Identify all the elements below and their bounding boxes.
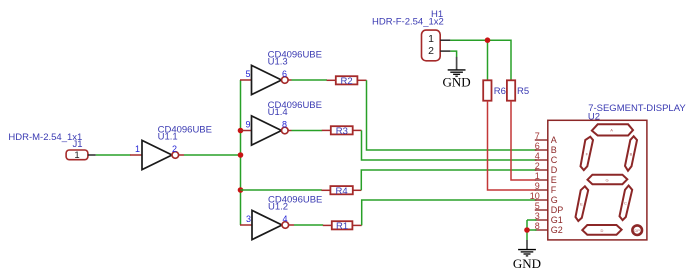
svg-text:U1.4: U1.4 [268,107,288,118]
svg-text:B: B [630,152,633,157]
wire R6 to display pin F [488,101,536,190]
svg-text:10: 10 [530,191,540,201]
svg-text:G: G [551,195,558,205]
segment E [576,186,589,221]
op-amp U1.1 (inverter CD4096UBE) [130,125,212,170]
svg-text:7: 7 [535,131,540,141]
segment B [625,136,637,171]
header H1 [422,30,451,61]
segment DP [632,225,642,235]
segment C [620,186,633,221]
svg-text:1: 1 [135,144,140,154]
svg-text:J1: J1 [73,139,83,150]
segment A [592,124,633,135]
op-amp U1.3 (inverter CD4096UBE) [240,50,322,95]
segment G [588,175,628,185]
node junction at G2/ground [524,227,530,233]
svg-text:C: C [551,155,558,165]
svg-text:GND: GND [443,75,471,90]
ground symbol (bottom) [513,240,541,271]
svg-text:1: 1 [428,33,434,45]
header H1 label HDR-F-2.54_1x2 [372,9,444,28]
svg-text:F: F [551,185,557,195]
header J1 label HDR-M-2.54_1x1 [8,132,82,150]
node junction at R4 branch [238,187,244,193]
svg-text:5: 5 [245,69,250,79]
svg-text:R1: R1 [336,221,348,232]
svg-text:GND: GND [513,256,541,271]
svg-text:7-SEGMENT-DISPLAY: 7-SEGMENT-DISPLAY [588,103,686,114]
wire G1 G2 to ground [527,220,537,240]
svg-text:4: 4 [535,151,540,161]
svg-text:R3: R3 [336,126,348,137]
resistor R5 [507,80,529,100]
svg-text:A: A [551,135,557,145]
node junction at U1.4 input [238,128,244,134]
svg-text:5: 5 [535,201,540,211]
wire U1.3 output to R2 [292,79,328,81]
wire U1.2 output to R1 [294,224,323,226]
resistor R6 [483,80,506,100]
svg-text:2: 2 [535,161,540,171]
wire J1 to U1.1 input [96,154,131,156]
ground symbol (top) [443,57,471,90]
svg-text:R2: R2 [341,76,353,87]
resistor R4 [321,186,361,197]
svg-text:DP: DP [634,228,640,233]
svg-text:R4: R4 [336,186,348,197]
7-segment display U2 body [548,120,647,240]
wire H1 pin2 to ground [450,51,456,57]
svg-text:R5: R5 [517,86,529,97]
pin 1 E [535,171,557,185]
wire R3 to display pin C [362,130,537,160]
segment D [582,225,621,235]
7-segment display U2 labels [588,103,686,122]
pin 7 A [535,131,557,145]
svg-text:D: D [551,165,558,175]
svg-text:D: D [601,228,604,233]
svg-text:U1.1: U1.1 [158,132,178,143]
svg-text:8: 8 [282,119,287,129]
wire junction to R4 [241,189,322,191]
svg-text:U1.2: U1.2 [268,202,288,213]
svg-text:HDR-M-2.54_1x1: HDR-M-2.54_1x1 [8,132,82,143]
pin 10 G [530,191,558,205]
wire R2 to display pin B [367,80,537,150]
svg-text:2: 2 [172,144,177,154]
pin 4 C [535,151,558,165]
svg-text:E: E [551,175,557,185]
pin 2 D [535,161,558,175]
svg-text:HDR-F-2.54_1x2: HDR-F-2.54_1x2 [372,17,444,28]
svg-text:6: 6 [282,69,287,79]
svg-text:DP: DP [551,205,564,215]
svg-text:6: 6 [535,141,540,151]
pin 8 G2 [535,221,563,235]
svg-text:3: 3 [246,214,251,224]
wire H1 pin1 to R5/R6 [450,40,511,80]
resistor R3 [322,126,362,137]
pin 6 B [535,141,557,155]
svg-text:C: C [624,201,627,206]
wire R1 to display pin G [362,200,537,225]
svg-text:1: 1 [535,171,540,181]
resistor R2 [327,76,367,87]
op-amp U1.4 (inverter CD4096UBE) [240,100,322,145]
segment F [581,137,594,170]
svg-text:1: 1 [74,150,79,161]
svg-text:G: G [605,178,608,183]
resistor R1 [323,221,362,232]
wire R6 branch [487,40,489,80]
wire R5 to display pin E [511,101,536,180]
svg-text:9: 9 [535,181,540,191]
svg-text:4: 4 [283,214,288,224]
svg-text:E: E [580,202,583,207]
pin 3 G1 [535,211,563,225]
node junction at H1 pin1 wire [485,37,491,43]
header J1 [66,150,96,161]
svg-text:9: 9 [245,119,250,129]
op-amp U1.2 (inverter CD4096UBE) [240,195,322,240]
pin 5 DP [535,201,564,215]
wire main vertical bus [240,80,242,225]
svg-text:2: 2 [428,45,434,57]
wire U1.4 output to R3 [292,130,323,132]
svg-text:A: A [610,128,613,133]
svg-text:G1: G1 [551,215,563,225]
node junction at U1.1 output [238,152,244,158]
svg-text:U1.3: U1.3 [268,57,288,68]
svg-text:G2: G2 [551,225,563,235]
pin 9 F [535,181,557,195]
svg-text:R6: R6 [494,86,506,97]
wire U1.1 output to junction [184,154,241,156]
svg-text:B: B [551,145,557,155]
wire R4 to display pin D [361,170,536,190]
